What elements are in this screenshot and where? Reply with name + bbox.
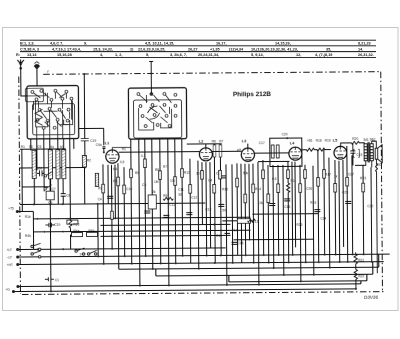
svg-text:4, (7,(8,19: 4, (7,(8,19 [315,53,332,57]
svg-text:16,17,: 16,17, [216,42,227,46]
svg-text:C28: C28 [342,190,348,194]
svg-text:0,5: 0,5 [120,160,125,164]
svg-text:R19: R19 [325,139,331,143]
svg-text:2M: 2M [259,201,264,205]
svg-text:4,5, 10,11, 14,15,: 4,5, 10,11, 14,15, [145,42,174,46]
svg-text:R7: R7 [219,139,223,143]
svg-text:C1b: C1b [54,223,60,227]
svg-text:14,15,26,: 14,15,26, [275,42,291,46]
svg-text:−LT: −LT [7,256,12,260]
svg-text:0,5: 0,5 [272,177,277,181]
svg-text:R20: R20 [352,137,358,141]
svg-text:C20: C20 [282,132,288,136]
svg-text:L3: L3 [242,139,246,143]
svg-text:10k: 10k [170,179,176,183]
svg-text:C7: C7 [52,187,56,191]
svg-text:C17: C17 [259,141,265,145]
svg-text:C16: C16 [284,205,290,209]
svg-text:0,1: 0,1 [141,154,146,158]
svg-text:R12: R12 [222,187,228,191]
svg-text:C4: C4 [208,178,212,182]
svg-text:+HT: +HT [7,263,13,267]
svg-text:1M: 1M [154,180,159,184]
svg-text:C4a: C4a [96,143,102,147]
svg-text:+55: +55 [307,139,313,143]
svg-text:+LT: +LT [7,248,12,252]
svg-text:R14: R14 [255,187,261,191]
svg-text:8,21,23: 8,21,23 [358,42,371,46]
svg-text:C12: C12 [191,196,197,200]
svg-text:C12: C12 [169,203,175,207]
svg-text:50k: 50k [243,171,249,175]
svg-text:R:: R: [16,53,20,57]
svg-text:C14: C14 [216,234,222,238]
svg-text:5, 9,14,: 5, 9,14, [251,53,264,57]
svg-text:30: 30 [178,193,182,197]
svg-text:4,6,C 7.: 4,6,C 7. [50,42,63,46]
svg-text:R4a: R4a [73,229,79,233]
svg-text:+1,35: +1,35 [210,47,220,51]
svg-text:C1: C1 [55,278,59,282]
svg-text:C24: C24 [320,217,326,221]
svg-text:14.: 14. [358,47,363,51]
svg-text:15,16,28: 15,16,28 [57,53,72,57]
svg-text:R23: R23 [360,176,366,180]
svg-text:R12: R12 [252,220,258,224]
svg-text:(12)4,34: (12)4,34 [229,47,244,51]
svg-text:R17: R17 [325,173,331,177]
svg-text:R2: R2 [98,186,102,190]
svg-text:4,: 4, [100,53,103,57]
svg-text:R10: R10 [184,171,190,175]
svg-text:R6: R6 [212,139,216,143]
svg-text:R4: R4 [50,145,54,149]
svg-text:C11: C11 [178,188,184,192]
svg-text:L1: L1 [105,141,109,145]
svg-text:R4: R4 [113,167,117,171]
svg-text:R65: R65 [376,163,382,167]
svg-text:C10: C10 [126,187,132,191]
svg-text:R21: R21 [358,258,364,262]
svg-text:R11: R11 [291,179,297,183]
svg-text:+G: +G [5,288,10,292]
svg-text:5,: 5, [146,53,149,57]
svg-text:R4b: R4b [88,229,94,233]
svg-text:R26: R26 [296,223,302,227]
svg-text:C13: C13 [205,207,211,211]
svg-text:C27: C27 [348,172,354,176]
svg-text:L2: L2 [199,140,203,144]
svg-text:2k: 2k [152,190,156,194]
svg-text:C5: C5 [142,183,146,187]
svg-text:R1b: R1b [25,215,31,219]
svg-text:B:1, 2,3.: B:1, 2,3. [20,42,35,46]
svg-text:20,24,31,34,: 20,24,31,34, [198,53,219,57]
svg-text:C6: C6 [38,166,42,170]
svg-text:R4b: R4b [25,234,31,238]
svg-text:C26: C26 [306,187,312,191]
svg-text:50: 50 [60,145,64,149]
svg-text:3d1: 3d1 [363,138,369,142]
svg-text:Philips 212B: Philips 212B [233,91,271,98]
svg-text:C4: C4 [98,197,102,201]
svg-text:3, 2b,6, 7,: 3, 2b,6, 7, [170,53,187,57]
svg-text:R1: R1 [21,145,25,149]
svg-text:35,: 35, [326,47,331,51]
svg-text:+75: +75 [8,207,14,211]
svg-text:C6: C6 [37,145,41,149]
svg-text:1, 2,: 1, 2, [115,53,122,57]
svg-text:D3V36: D3V36 [364,295,379,300]
svg-text:R18: R18 [316,139,322,143]
svg-text:C18: C18 [238,241,244,245]
svg-text:26,31,32.: 26,31,32. [358,53,374,57]
svg-text:L5: L5 [333,139,337,143]
svg-text:5B2: 5B2 [370,138,376,142]
svg-text:R7: R7 [163,165,167,169]
svg-text:R8: R8 [155,168,159,172]
svg-text:50: 50 [222,208,226,212]
svg-text:9.: 9. [84,42,87,46]
svg-text:R3: R3 [113,179,117,183]
svg-text:22,6,23,9,16,25,: 22,6,23,9,16,25, [138,47,165,51]
svg-text:12,: 12, [296,53,301,57]
svg-text:R5: R5 [135,171,139,175]
svg-text:4,7;16,1 17;43,4,: 4,7;16,1 17;43,4, [52,47,81,51]
svg-text:R16: R16 [310,201,316,205]
svg-text:R22: R22 [358,274,364,278]
svg-text:C8: C8 [66,194,70,198]
svg-text:26,27: 26,27 [188,47,198,51]
svg-text:R9: R9 [163,194,167,198]
svg-text:C4: C4 [48,201,52,205]
svg-text:10,(13b,20,19,32,36, 41,23,: 10,(13b,20,19,32,36, 41,23, [251,47,298,51]
svg-text:1k: 1k [334,175,338,179]
svg-text:S6: S6 [29,145,33,149]
svg-text:C:5,38;4, 3: C:5,38;4, 3 [20,47,39,51]
svg-text:30: 30 [196,172,200,176]
svg-text:C30: C30 [367,204,373,208]
svg-text:R2: R2 [87,158,91,162]
svg-text:0,1: 0,1 [233,228,238,232]
svg-text:R13: R13 [73,223,79,227]
svg-text:15,3, 24,32,: 15,3, 24,32, [93,47,113,51]
svg-text:13,14: 13,14 [27,53,37,57]
